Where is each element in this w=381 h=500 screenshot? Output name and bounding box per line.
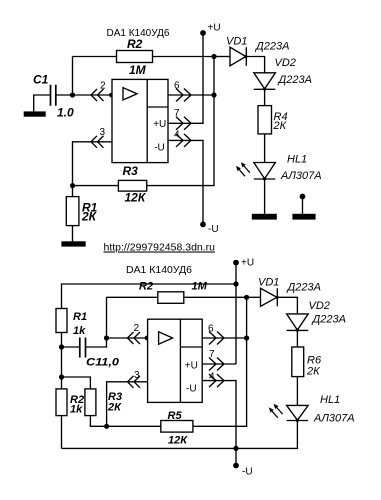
svg-text:3: 3: [134, 370, 140, 381]
VD1 type D223A (top): [254, 41, 289, 53]
label R3: [123, 164, 139, 178]
svg-text:+U: +U: [185, 361, 198, 372]
svg-text:1М: 1М: [129, 63, 147, 77]
svg-text:-U: -U: [208, 224, 219, 235]
connector chevrons pin 7: [176, 117, 191, 130]
HL1 emission arrows (top): [236, 162, 250, 176]
label +U (top circuit): [208, 23, 221, 34]
diode VD1 (top): [230, 47, 247, 66]
HL1 type AL307A (top): [280, 170, 322, 182]
C1 label and value (bottom): [86, 357, 120, 369]
label DA1 K140UD6 (bottom): [126, 265, 192, 276]
svg-text:АЛ307А: АЛ307А: [280, 170, 322, 182]
connector chevrons pin 3 (bottom): [128, 376, 141, 388]
wire: R1 bottom lead: [72, 226, 74, 242]
diode VD2 (top): [254, 73, 276, 91]
resistor R2: [117, 51, 153, 63]
label R1 (bottom): [73, 311, 87, 323]
svg-text:1М: 1М: [192, 281, 208, 293]
wire: pin 4 to -U (bottom): [202, 381, 236, 449]
svg-text:3: 3: [100, 127, 106, 138]
svg-text:C1: C1: [33, 73, 49, 87]
svg-text:R2: R2: [139, 281, 153, 293]
R3 value 2K (bottom): [107, 401, 122, 413]
svg-text:R5: R5: [168, 410, 183, 422]
wire: pin 3 input (bottom): [107, 382, 148, 427]
C1 value 1.0: [57, 106, 74, 120]
wire: feedback vertical to R2: [72, 57, 74, 96]
label R2 (1k, bottom): [70, 394, 84, 406]
R2 value 1M: [129, 63, 147, 77]
LED HL1 (bottom): [287, 405, 309, 422]
svg-text:2: 2: [134, 323, 140, 334]
svg-text:Д223А: Д223А: [277, 74, 312, 86]
resistor R1 (top): [66, 197, 79, 226]
node: pin 6 junction (bottom): [244, 335, 249, 340]
R6 value 2K: [306, 365, 320, 377]
pin 4 label: [174, 129, 180, 140]
svg-text:1k: 1k: [73, 325, 86, 337]
wire: R4 to HL1: [264, 134, 266, 163]
svg-text:Д223А: Д223А: [254, 41, 289, 53]
resistor R6: [292, 347, 304, 377]
svg-text:1k: 1k: [70, 404, 83, 416]
svg-text:2К: 2К: [81, 209, 98, 223]
wire: VD1 anode lead (bottom): [247, 296, 261, 298]
label +U (bottom circuit): [241, 258, 254, 269]
resistor R1 (bottom): [56, 309, 67, 333]
svg-text:12К: 12К: [125, 190, 147, 204]
svg-text:+U: +U: [241, 258, 254, 269]
resistor R2 1M (bottom): [158, 292, 184, 304]
op-amp DA1 body (bottom): [148, 319, 203, 402]
svg-text:VD2: VD2: [309, 300, 330, 312]
pin 7 label (bottom): [209, 349, 215, 360]
node: pin 2 at op-amp: [109, 93, 114, 98]
svg-text:Д223А: Д223А: [311, 314, 346, 326]
label R2 (1M, bottom): [139, 281, 153, 293]
svg-text:2К: 2К: [273, 120, 287, 132]
svg-text:7: 7: [174, 108, 180, 119]
node: R1/R2/R3 junction (bottom): [59, 374, 64, 379]
pin 3 label: [100, 127, 106, 138]
resistor R3 2K (bottom): [85, 389, 96, 416]
resistor R2 1k (bottom): [56, 389, 67, 416]
wire: HL1 to bottom rail: [62, 421, 298, 449]
node: output top junction (R2/VD1): [211, 54, 216, 59]
label R4: [274, 111, 288, 123]
node: pin3/R3/R5 junction (bottom): [104, 424, 109, 429]
diode VD1 (bottom): [261, 288, 279, 306]
LED HL1 (top): [254, 163, 276, 181]
terminal +U (top circuit): [200, 30, 206, 36]
wire: R2 left lead: [73, 56, 117, 58]
wire: R2 right lead: [153, 56, 215, 58]
svg-text:6: 6: [208, 324, 214, 335]
svg-text:DA1 К140УД6: DA1 К140УД6: [107, 28, 170, 39]
wire: pin 6 output: [168, 94, 214, 96]
wire: VD1 anode lead: [214, 56, 230, 58]
connector chevrons pin 6 (bottom): [209, 332, 224, 345]
label VD1 (top): [226, 36, 247, 48]
diode VD2 (bottom): [287, 314, 309, 332]
terminal -U (bottom circuit): [233, 463, 239, 469]
wire: pin 2 input (bottom): [107, 337, 148, 339]
label DA1 K140UD6 (top): [107, 28, 170, 39]
op-amp DA1 triangle: [123, 88, 137, 100]
node: output/pin6 junction: [211, 92, 216, 97]
node: R1/C1 junction (bottom): [59, 344, 64, 349]
pin 2 label (bottom): [134, 323, 140, 334]
svg-text:DA1 К140УД6: DA1 К140УД6: [126, 265, 192, 276]
connector chevrons pin 2 (bottom): [128, 332, 141, 344]
connector chevrons pin 4: [176, 134, 191, 147]
wire: VD2 to R4: [264, 89, 266, 105]
wire: HL1 cathode to ground: [264, 179, 266, 214]
label VD1 (bottom): [258, 277, 279, 289]
svg-text:12К: 12К: [168, 435, 188, 447]
label -U (bottom circuit): [242, 466, 253, 477]
resistor R3: [118, 180, 146, 191]
wire: node to R3 2K top: [62, 377, 91, 389]
wire: R2 1M left lead (bottom): [107, 296, 158, 298]
VD2 type D223A (bottom): [311, 314, 346, 326]
svg-text:http://299792458.3dn.ru: http://299792458.3dn.ru: [104, 242, 216, 254]
op-amp triangle (bottom): [159, 332, 173, 344]
wire: VD2 to R6: [296, 330, 298, 347]
label HL1 (bottom): [320, 394, 340, 406]
svg-text:HL1: HL1: [320, 394, 340, 406]
node: pin 2 junction (bottom): [104, 335, 109, 340]
label R5: [168, 410, 183, 422]
op-amp DA1 body: [112, 79, 168, 162]
wire: VD1 cathode to VD2 (bottom): [277, 297, 297, 314]
wire: R1 top lead: [72, 186, 74, 197]
svg-text:+U: +U: [153, 119, 166, 130]
wire: R1 bottom lead: [61, 333, 63, 348]
node: pin 2 at op-amp (bottom): [145, 336, 150, 341]
wire: R2 1M right lead (bottom): [184, 296, 247, 298]
svg-text:R1: R1: [73, 311, 87, 323]
connector chevrons pin 2: [91, 89, 104, 101]
terminal -U (top circuit): [200, 222, 206, 228]
VD1 type D223A (bottom): [286, 282, 321, 294]
svg-text:VD1: VD1: [226, 36, 247, 48]
wire: pin 3 input: [73, 142, 113, 186]
resistor R5: [161, 421, 193, 433]
capacitor C1 (bottom): [80, 338, 86, 358]
connector chevrons pin 3: [91, 136, 104, 148]
R1 value 2K (top): [81, 209, 98, 223]
wire: pin 4 to -U rail: [168, 140, 203, 224]
terminal +U (bottom circuit): [233, 260, 239, 266]
pin 4 label (bottom): [209, 371, 215, 382]
wire: pin 7 to +U rail: [168, 33, 203, 123]
R1 value 1k (bottom): [73, 325, 86, 337]
wire: C1 to pin 2 node: [56, 94, 73, 96]
wire: R3 left lead: [73, 185, 119, 187]
resistor R4: [258, 106, 272, 134]
ground (input, top circuit): [24, 111, 46, 116]
wire: C1 left lead (bottom): [62, 346, 80, 348]
connector chevrons pin 6: [176, 89, 191, 102]
wire: +U vertical to pin 7: [235, 263, 237, 364]
svg-text:-U: -U: [186, 384, 197, 395]
label R3 (bottom): [108, 391, 122, 403]
R2 value 1M (bottom): [192, 281, 208, 293]
svg-text:2К: 2К: [306, 365, 320, 377]
terminal: common point: [300, 194, 306, 214]
node: input junction (C1/R2/pin2): [70, 92, 75, 97]
R3 value 12K: [125, 190, 147, 204]
op-amp +U cell label (bottom): [185, 361, 198, 372]
wire: R3 2K bottom lead: [90, 416, 106, 427]
wire: -U stub (bottom): [235, 448, 237, 465]
svg-text:2К: 2К: [107, 401, 122, 413]
svg-text:-U: -U: [242, 466, 253, 477]
wire: pin 2 input: [73, 94, 113, 96]
svg-text:-U: -U: [154, 143, 165, 154]
connector chevrons pin 7 (bottom): [209, 358, 224, 371]
R2 value 1k (bottom): [70, 404, 83, 416]
wire: node to R2 1k: [61, 347, 63, 389]
wire: R3 right lead + output drop: [147, 57, 214, 186]
label R2: [127, 37, 143, 51]
wire: C1 to pin 2 node (bottom): [86, 297, 107, 347]
node: +U rail junction: [233, 281, 238, 286]
svg-text:АЛ307А: АЛ307А: [313, 412, 355, 424]
wire: VD1 cathode to VD2: [246, 57, 264, 73]
ground (R1, top circuit): [61, 241, 85, 246]
label VD2 (bottom): [309, 300, 330, 312]
pin 6 label: [174, 81, 180, 92]
node: -U rail junction (bottom): [233, 446, 238, 451]
label R1 (top): [82, 200, 98, 214]
op-amp -U cell label: [154, 143, 165, 154]
node: R2/VD1 junction (bottom): [244, 295, 249, 300]
op-amp -U cell label (bottom): [186, 384, 197, 395]
svg-text:Д223А: Д223А: [286, 282, 321, 294]
pin 7 label: [174, 108, 180, 119]
pin 3 label (bottom): [134, 370, 140, 381]
wire: R5 left lead: [107, 425, 161, 427]
pin 6 label (bottom): [208, 324, 214, 335]
svg-text:6: 6: [174, 81, 180, 92]
wire: R2 1k bottom to rail: [61, 416, 63, 449]
label C1: [33, 73, 49, 87]
svg-text:7: 7: [209, 349, 215, 360]
svg-text:2: 2: [100, 81, 106, 92]
wire: pin 7 to +U (bottom): [202, 363, 236, 365]
wire: R5 right lead + output drop (bottom): [193, 297, 247, 426]
wire: R1 top to +U rail: [62, 284, 237, 309]
label HL1 (top): [287, 153, 307, 165]
connector chevrons pin 4 (bottom): [209, 374, 224, 387]
wire: R6 to HL1 (bottom): [296, 377, 298, 406]
node: pin3/R1/R3 junction: [70, 183, 75, 188]
svg-text:HL1: HL1: [287, 153, 307, 165]
svg-text:С11,0: С11,0: [86, 357, 120, 369]
wire: C1 left lead to ground: [34, 95, 51, 111]
R5 value 12K: [168, 435, 188, 447]
HL1 emission arrows (bottom): [269, 404, 283, 418]
wire: pin 6 output (bottom): [202, 337, 246, 339]
ground (HL1, top circuit): [252, 214, 277, 220]
label -U (top circuit): [208, 224, 219, 235]
label VD2 (top): [275, 57, 296, 69]
svg-text:VD1: VD1: [258, 277, 279, 289]
VD2 type D223A (top): [277, 74, 312, 86]
R4 value 2K: [273, 120, 287, 132]
svg-text:R3: R3: [123, 164, 139, 178]
svg-text:1.0: 1.0: [57, 106, 74, 120]
capacitor C1: [51, 85, 56, 106]
HL1 type AL307A (bottom): [313, 412, 355, 424]
svg-text:4: 4: [174, 129, 180, 140]
svg-text:4: 4: [209, 371, 215, 382]
op-amp +U cell label: [153, 119, 166, 130]
site url: [104, 242, 216, 254]
svg-text:VD2: VD2: [275, 57, 296, 69]
pin 2 label: [100, 81, 106, 92]
label R6: [307, 354, 322, 366]
ground (common terminal): [292, 214, 315, 220]
svg-text:+U: +U: [208, 23, 221, 34]
